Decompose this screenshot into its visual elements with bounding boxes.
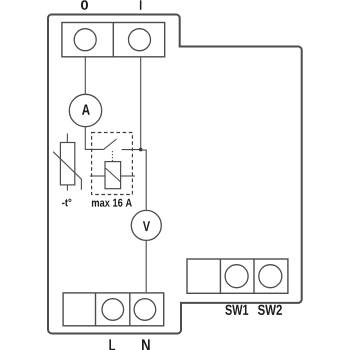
dotted actuator link [111,151,113,161]
thermistor lead top [66,134,68,143]
label SW1 [225,305,248,315]
bottom divider 2 [129,293,131,326]
terminal SW1 circle [225,265,248,288]
label N [142,339,150,350]
relay coil diagonal [106,168,121,181]
label I [140,0,142,10]
terminal L circle [102,299,124,321]
thermistor diagonal [53,152,81,190]
label SW2 [258,305,282,315]
switch fixed contact wire [122,149,141,151]
terminal block top divider [112,23,114,57]
terminal block SW [187,259,288,293]
relay coil body [105,162,121,189]
voltmeter V [131,210,161,240]
switch blade [104,139,117,149]
wire 0-terminal to ammeter [84,57,86,95]
label max 16 A [92,199,132,207]
ammeter A [69,94,101,126]
SW divider 2 [253,259,255,293]
terminal SW2 circle [259,265,282,288]
dashed box [92,133,133,195]
terminal block top [62,23,165,57]
bottom divider 1 [95,293,97,326]
label 0 [81,0,88,10]
label L [109,339,115,350]
wire ammeter to switch [85,127,103,150]
device outline [48,15,302,334]
terminal 0 circle [74,29,96,51]
SW divider 1 [219,259,221,293]
relay coil right lead [121,175,135,177]
terminal I circle [129,29,151,51]
wire I-terminal down to junction [140,57,142,150]
terminal block bottom [63,293,164,326]
relay coil left lead [90,175,105,177]
thermistor body [60,143,74,185]
wire voltmeter to N terminal [145,240,147,293]
junction node [139,148,143,152]
wire junction jog to voltmeter [141,150,147,210]
label -t° [62,199,71,207]
thermistor lead bottom [66,185,68,191]
terminal N circle [134,299,156,321]
